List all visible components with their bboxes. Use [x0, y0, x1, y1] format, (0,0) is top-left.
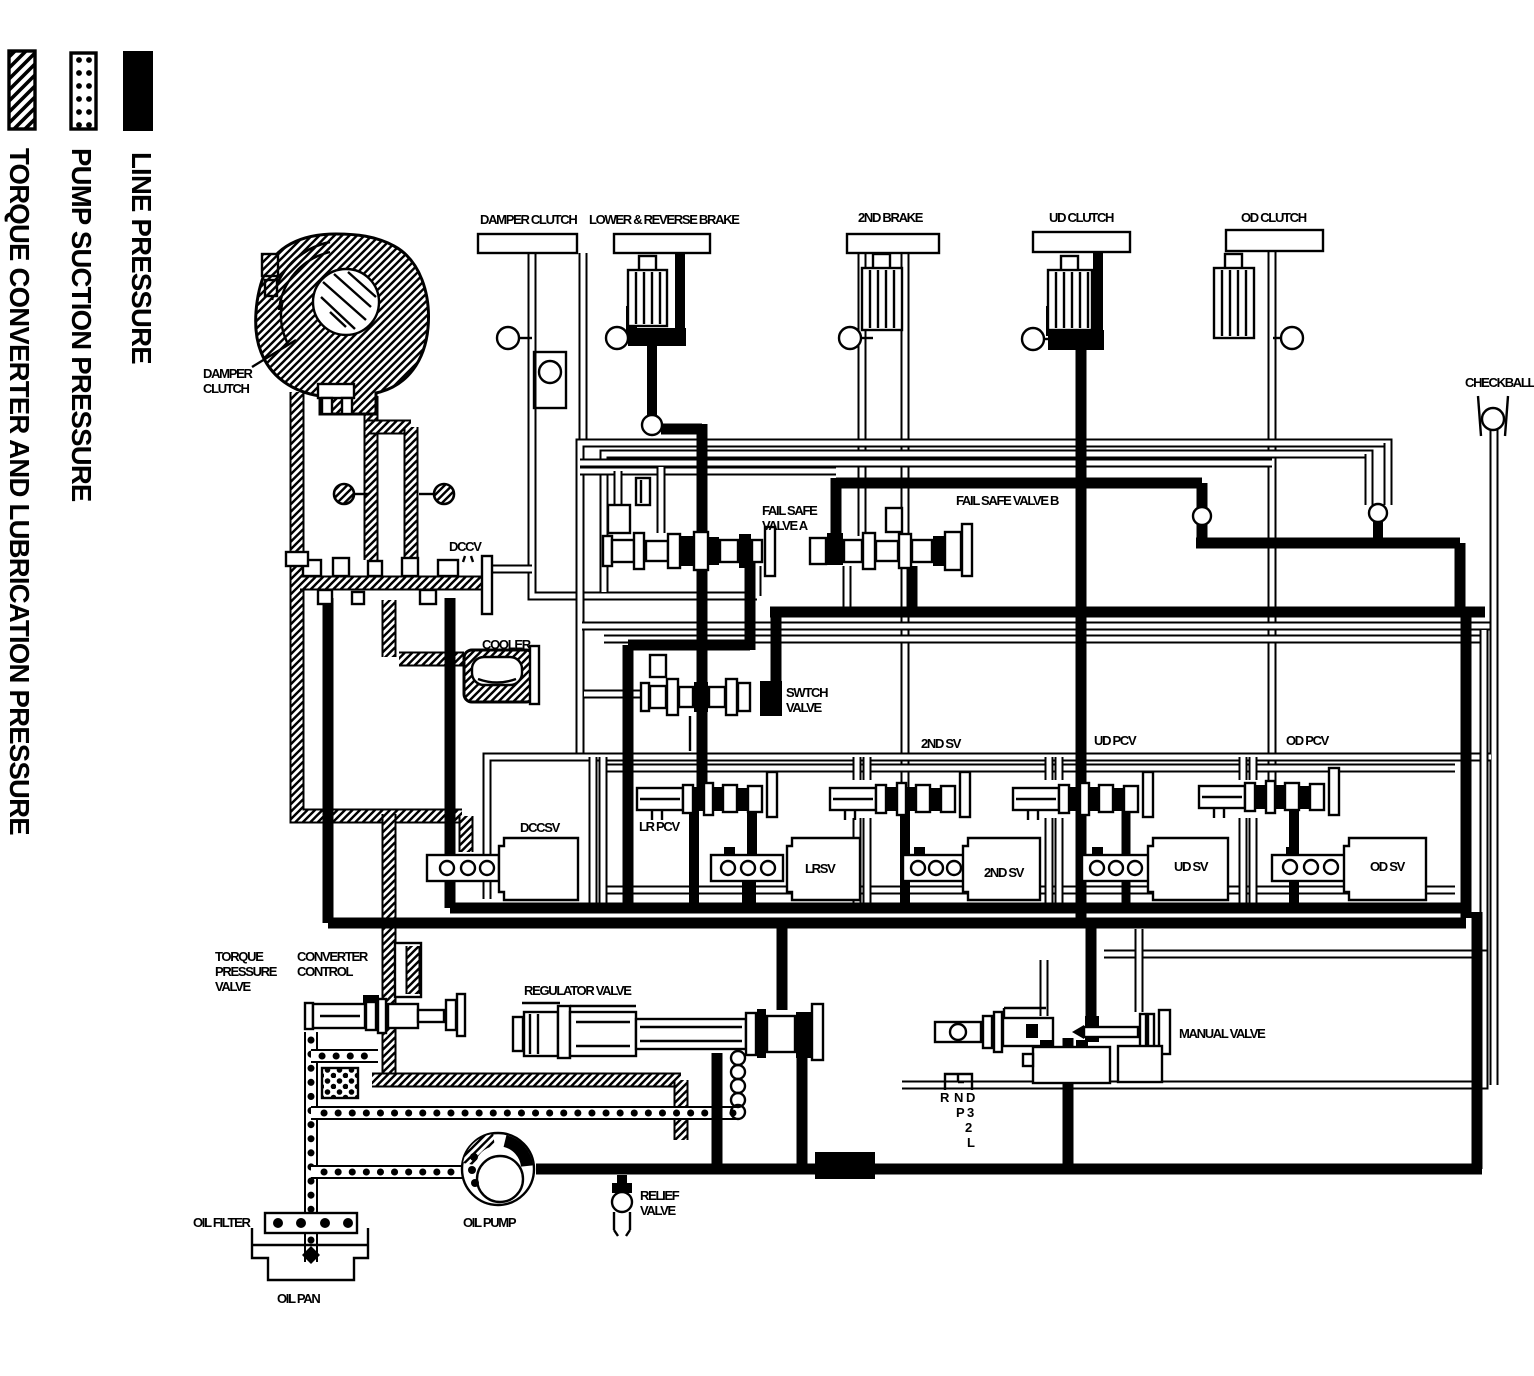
svg-text:OD PCV: OD PCV	[1286, 733, 1330, 748]
svg-text:LOWER & REVERSE BRAKE: LOWER & REVERSE BRAKE	[589, 212, 740, 227]
svg-text:MANUAL VALVE: MANUAL VALVE	[1179, 1026, 1266, 1041]
svg-text:LRSV: LRSV	[805, 861, 836, 876]
svg-text:UD SV: UD SV	[1174, 859, 1209, 874]
svg-text:N: N	[954, 1090, 963, 1105]
svg-text:FAIL SAFE VALVE B: FAIL SAFE VALVE B	[956, 493, 1059, 508]
svg-text:TORQUE CONVERTER AND LUBRICATI: TORQUE CONVERTER AND LUBRICATION PRESSUR…	[4, 148, 35, 835]
svg-text:COOLER: COOLER	[482, 637, 532, 652]
svg-text:DAMPER CLUTCH: DAMPER CLUTCH	[480, 212, 577, 227]
svg-text:VALVE: VALVE	[215, 979, 252, 994]
svg-text:OIL PUMP: OIL PUMP	[463, 1215, 517, 1230]
svg-text:VALVE: VALVE	[640, 1203, 677, 1218]
svg-text:LINE PRESSURE: LINE PRESSURE	[126, 152, 157, 364]
svg-text:CONVERTER: CONVERTER	[297, 949, 369, 964]
svg-text:PUMP SUCTION PRESSURE: PUMP SUCTION PRESSURE	[66, 148, 97, 502]
svg-text:OIL FILTER: OIL FILTER	[193, 1215, 251, 1230]
svg-text:TORQUE: TORQUE	[215, 949, 264, 964]
svg-text:CONTROL: CONTROL	[297, 964, 354, 979]
svg-text:LR PCV: LR PCV	[639, 819, 681, 834]
svg-text:SWTCH: SWTCH	[786, 685, 828, 700]
svg-text:VALVE A: VALVE A	[762, 518, 809, 533]
svg-text:OD CLUTCH: OD CLUTCH	[1241, 210, 1307, 225]
svg-text:PRESSURE: PRESSURE	[215, 964, 278, 979]
svg-text:CHECKBALL: CHECKBALL	[1465, 375, 1534, 390]
svg-text:DCCSV: DCCSV	[520, 820, 561, 835]
svg-text:OIL PAN: OIL PAN	[277, 1291, 320, 1306]
svg-text:2ND SV: 2ND SV	[984, 865, 1025, 880]
svg-text:2ND SV: 2ND SV	[921, 736, 962, 751]
svg-text:OD SV: OD SV	[1370, 859, 1406, 874]
svg-text:FAIL SAFE: FAIL SAFE	[762, 503, 818, 518]
svg-text:CLUTCH: CLUTCH	[203, 381, 250, 396]
svg-text:DAMPER: DAMPER	[203, 366, 253, 381]
svg-text:REGULATOR VALVE: REGULATOR VALVE	[524, 983, 632, 998]
svg-text:UD CLUTCH: UD CLUTCH	[1049, 210, 1114, 225]
svg-text:2ND BRAKE: 2ND BRAKE	[858, 210, 924, 225]
svg-text:RELIEF: RELIEF	[640, 1188, 680, 1203]
svg-text:UD PCV: UD PCV	[1094, 733, 1137, 748]
svg-text:VALVE: VALVE	[786, 700, 823, 715]
svg-text:DCCV: DCCV	[449, 539, 482, 554]
svg-text:D: D	[966, 1090, 975, 1105]
